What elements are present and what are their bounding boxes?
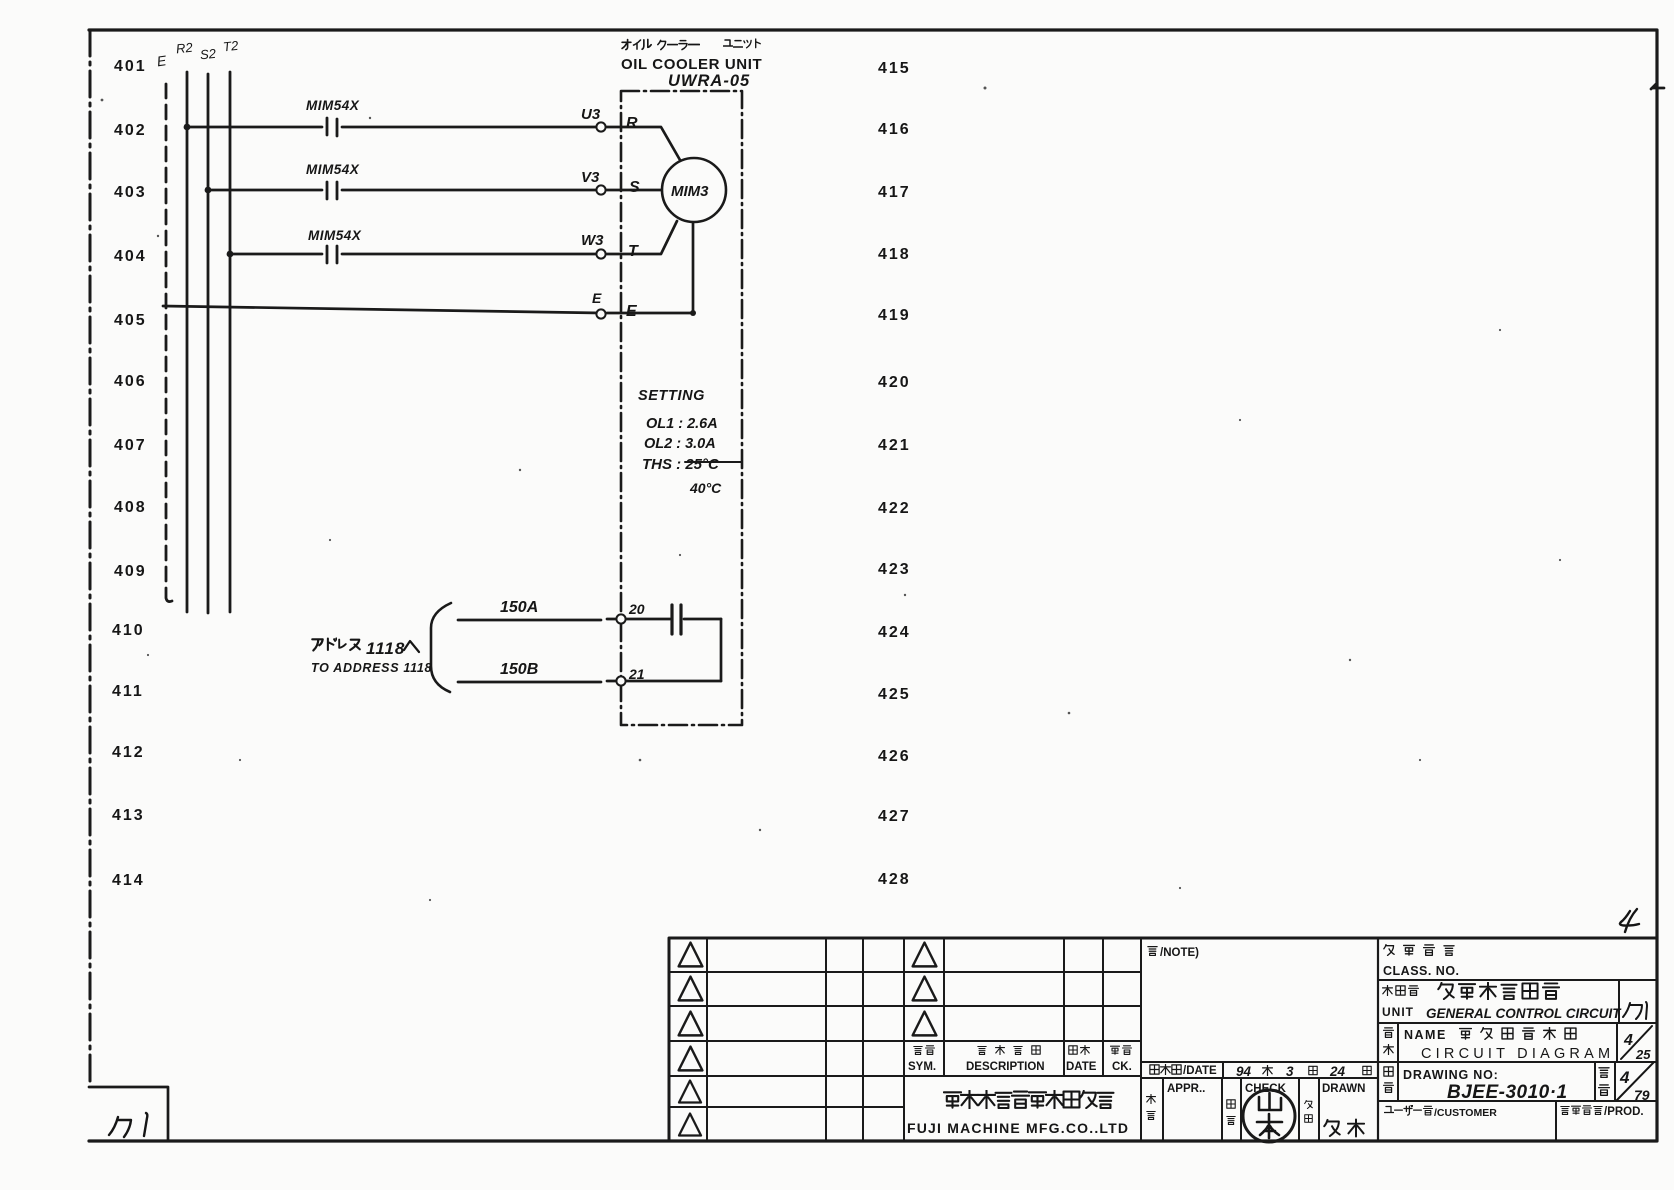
svg-text:1118: 1118 (366, 639, 405, 658)
right loop wire down (720, 619, 723, 681)
motor MIM3 (662, 158, 726, 222)
svg-text:/CUSTOMER: /CUSTOMER (1434, 1107, 1497, 1119)
class no box (1378, 979, 1657, 981)
label address 1118 katakana (312, 639, 360, 651)
svg-text:CIRCUIT DIAGRAM: CIRCUIT DIAGRAM (1421, 1046, 1614, 1062)
title block outer border (669, 938, 1657, 1141)
svg-text:V3: V3 (581, 169, 600, 186)
svg-text:150A: 150A (500, 599, 538, 616)
svg-text:MIM54X: MIM54X (308, 228, 362, 243)
svg-text:OIL COOLER UNIT: OIL COOLER UNIT (621, 56, 762, 73)
kanji drawn stacked (1305, 1100, 1313, 1122)
svg-text:419: 419 (878, 307, 911, 324)
customer katakana label (1385, 1105, 1422, 1115)
svg-text:TO ADDRESS 1118: TO ADDRESS 1118 (311, 661, 432, 675)
stamp kanji moto (1257, 1114, 1282, 1138)
svg-text:4: 4 (1619, 1068, 1630, 1087)
svg-text:/PROD.: /PROD. (1604, 1106, 1644, 1118)
svg-text:406: 406 (114, 373, 147, 390)
svg-text:S2: S2 (199, 46, 217, 63)
svg-text:U3: U3 (581, 106, 601, 123)
wire row 405 (E earth) (163, 306, 693, 313)
fraction 4/25 (1621, 1026, 1652, 1059)
name kanji stacked (1384, 1028, 1394, 1055)
svg-text:427: 427 (878, 808, 911, 825)
terminal W3 circle (596, 249, 605, 258)
svg-text:401: 401 (114, 58, 147, 75)
revision triangle A5 (679, 1081, 701, 1103)
signature row dividers (1163, 1078, 1319, 1141)
svg-text:24: 24 (1329, 1064, 1346, 1079)
handwritten page mark 4 (1620, 909, 1639, 932)
svg-text:423: 423 (878, 561, 911, 578)
svg-text:416: 416 (878, 121, 911, 138)
paper speckle dots (101, 87, 1562, 902)
stamp kanji yama (1259, 1093, 1281, 1110)
svg-text:409: 409 (114, 563, 147, 580)
svg-text:410: 410 (112, 622, 145, 639)
svg-text:FUJI MACHINE MFG.CO..LTD: FUJI MACHINE MFG.CO..LTD (907, 1120, 1129, 1136)
revision triangle B2 (913, 977, 937, 1001)
svg-text:79: 79 (1634, 1087, 1650, 1103)
header kanji DATE (1069, 1045, 1090, 1054)
kanji appr stacked (1147, 1094, 1156, 1119)
svg-text:40°C: 40°C (689, 480, 722, 496)
svg-text:OL1 : 2.6A: OL1 : 2.6A (646, 416, 718, 432)
revision triangle A6 (679, 1114, 701, 1136)
svg-text:21: 21 (628, 666, 645, 682)
svg-text:403: 403 (114, 184, 147, 201)
company name kanji Fuji Machine Mfg (944, 1091, 1114, 1109)
contact MIM54X row 403 (327, 182, 337, 199)
svg-text:402: 402 (114, 122, 147, 139)
bus S2 (207, 74, 210, 613)
svg-text:4: 4 (1623, 1032, 1633, 1049)
drawing no box (1378, 1062, 1657, 1101)
svg-text:E: E (626, 303, 638, 320)
svg-text:E: E (592, 290, 602, 306)
svg-text:UNIT: UNIT (1382, 1005, 1414, 1019)
svg-text:UWRA-05: UWRA-05 (668, 72, 750, 90)
svg-text:417: 417 (878, 184, 911, 201)
unit name kanji handwritten (1438, 983, 1559, 1000)
terminal 20 circle (616, 614, 625, 623)
drawing no kanji stacked (1384, 1067, 1394, 1092)
revision triangle A3 (679, 1012, 703, 1036)
note box kanji (1148, 947, 1157, 956)
svg-text:OL2 : 3.0A: OL2 : 3.0A (644, 436, 716, 452)
svg-text:/DATE: /DATE (1183, 1065, 1217, 1077)
name kanji electric circuit diagram (1460, 1027, 1576, 1039)
junction dot row 403 (205, 187, 212, 194)
svg-text:SYM.: SYM. (908, 1061, 936, 1073)
date row line (1141, 1062, 1378, 1078)
wire row 404 (T phase) (230, 221, 677, 254)
svg-text:S: S (629, 179, 640, 196)
motor earth drop wire (692, 222, 695, 313)
revision triangle B3 (913, 1012, 937, 1036)
junction dot row 402 (184, 124, 191, 131)
svg-text:405: 405 (114, 312, 147, 329)
handwritten sheet id KU1 (109, 1113, 147, 1137)
header kanji SYM (914, 1046, 935, 1055)
svg-text:413: 413 (112, 807, 145, 824)
svg-text:DRAWN: DRAWN (1322, 1083, 1365, 1095)
header kanji CK (1111, 1046, 1132, 1055)
svg-text:MIM54X: MIM54X (306, 98, 360, 113)
svg-text:W3: W3 (581, 232, 604, 249)
svg-text:424: 424 (878, 624, 911, 641)
svg-text:418: 418 (878, 246, 911, 263)
svg-text:DATE: DATE (1066, 1061, 1097, 1073)
svg-text:420: 420 (878, 374, 911, 391)
svg-text:CK.: CK. (1112, 1061, 1132, 1073)
class no kanji (1384, 945, 1454, 956)
right section verticals (1377, 938, 1379, 1141)
svg-text:404: 404 (114, 248, 147, 265)
wire 150B (458, 681, 721, 682)
customer row divider (1555, 1101, 1557, 1141)
svg-text:R2: R2 (175, 40, 194, 57)
svg-text:BJEE-3010·1: BJEE-3010·1 (1447, 1082, 1568, 1103)
revision triangle B1 (913, 943, 937, 967)
terminal E circle (596, 309, 605, 318)
svg-text:415: 415 (878, 60, 911, 77)
oil cooler unit dash-dot box (621, 91, 742, 725)
svg-text:SETTING: SETTING (638, 388, 705, 404)
junction dot row 404 (227, 251, 234, 258)
svg-text:421: 421 (878, 437, 911, 454)
fraction 4/79 (1617, 1062, 1654, 1100)
date row kanji (1150, 1064, 1181, 1074)
katakana he (404, 641, 419, 652)
page no kanji stacked (1599, 1068, 1610, 1095)
prod kanji label (1561, 1106, 1602, 1115)
svg-text:407: 407 (114, 437, 147, 454)
svg-text:MIM54X: MIM54X (306, 162, 360, 177)
svg-text:CLASS. NO.: CLASS. NO. (1383, 964, 1460, 978)
label katakana oil cooler unit (622, 39, 760, 50)
svg-text:NAME: NAME (1404, 1028, 1447, 1042)
svg-text:MIM3: MIM3 (671, 183, 709, 200)
svg-text:94: 94 (1236, 1064, 1252, 1079)
stamp circle Yamamoto (1243, 1090, 1295, 1142)
svg-text:DRAWING NO:: DRAWING NO: (1403, 1068, 1499, 1082)
wire row 402 (R phase) (187, 127, 680, 160)
contact MIM54X row 402 (327, 118, 337, 136)
terminal 21 circle (616, 676, 625, 685)
revision triangle A4 (679, 1047, 703, 1071)
strike through 25C (685, 461, 742, 463)
svg-text:426: 426 (878, 748, 911, 765)
svg-text:THS : 25°C: THS : 25°C (642, 456, 720, 473)
title block column lines left tables (707, 938, 1141, 1141)
unit kanji small (1383, 985, 1419, 995)
wire 150A (458, 619, 721, 620)
svg-text:APPR..: APPR.. (1167, 1083, 1205, 1095)
header kanji DESCRIPTION (978, 1045, 1040, 1054)
revision triangle A2 (679, 977, 703, 1001)
svg-text:T: T (628, 243, 639, 260)
wire row 403 (S phase) (208, 189, 662, 192)
title block row lines (669, 972, 1141, 1107)
svg-text:411: 411 (112, 683, 144, 700)
name box lines (1378, 1023, 1657, 1101)
capacitor-style contact bars (672, 605, 681, 634)
handwritten katakana KU1 (1623, 1002, 1647, 1019)
contact MIM54X row 404 (327, 246, 337, 263)
terminal U3 circle (596, 122, 605, 131)
svg-text:20: 20 (628, 601, 645, 617)
revision triangle A1 (679, 943, 703, 967)
junction dot earth (690, 310, 696, 316)
svg-text:GENERAL CONTROL CIRCUIT: GENERAL CONTROL CIRCUIT (1426, 1006, 1622, 1021)
svg-text:3: 3 (1286, 1064, 1294, 1079)
terminal V3 circle (596, 185, 605, 194)
kanji check stacked (1227, 1100, 1235, 1125)
bus E (dashed vertical) (166, 84, 172, 602)
svg-text:T2: T2 (222, 38, 239, 55)
signature drawn by (1324, 1120, 1364, 1137)
svg-text:412: 412 (112, 744, 145, 761)
svg-text:408: 408 (114, 499, 147, 516)
svg-text:425: 425 (878, 686, 911, 703)
svg-text:DESCRIPTION: DESCRIPTION (966, 1061, 1045, 1073)
bus R2 (186, 72, 189, 612)
svg-text:428: 428 (878, 871, 911, 888)
svg-text:R: R (626, 115, 638, 132)
unit box line (1378, 980, 1657, 1023)
svg-text:/NOTE): /NOTE) (1160, 947, 1199, 959)
svg-text:150B: 150B (500, 661, 538, 678)
tick mark outside right border (1651, 84, 1664, 89)
svg-text:414: 414 (112, 872, 145, 889)
bus T2 (229, 72, 232, 612)
svg-text:25: 25 (1635, 1047, 1651, 1062)
svg-text:E: E (156, 52, 168, 69)
big bracket to address (431, 603, 451, 692)
svg-text:422: 422 (878, 500, 911, 517)
bottom-left sheet id box (89, 1087, 168, 1141)
